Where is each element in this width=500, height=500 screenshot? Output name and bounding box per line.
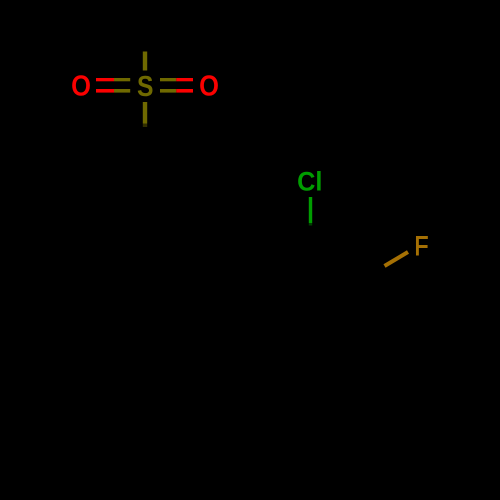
svg-text:O: O xyxy=(199,69,219,102)
wire F-C bond (F side, goldenrod) xyxy=(385,252,409,266)
wire S-C ring bond (S side, olive) xyxy=(143,102,147,127)
svg-text:F: F xyxy=(414,231,428,261)
svg-text:Cl: Cl xyxy=(297,166,322,197)
svg-text:S: S xyxy=(137,70,153,102)
wire S=O right double bond xyxy=(160,78,193,93)
atom Cl xyxy=(297,166,322,197)
atom O left xyxy=(71,69,91,102)
wire methyl C-S bond (S side, olive) xyxy=(143,52,147,71)
atom S xyxy=(137,70,153,102)
atom F xyxy=(414,231,428,261)
wire Cl-C bond (Cl side, green) xyxy=(309,197,312,226)
wire S=O left double bond xyxy=(96,78,130,93)
atom O right xyxy=(199,69,219,102)
svg-text:O: O xyxy=(71,69,91,102)
